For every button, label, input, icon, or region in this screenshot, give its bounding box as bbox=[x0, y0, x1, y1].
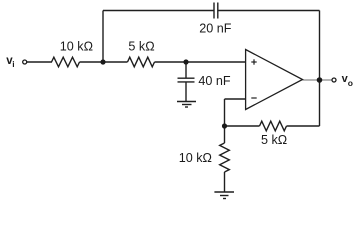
svg-text:vo: vo bbox=[342, 73, 353, 88]
svg-text:5 kΩ: 5 kΩ bbox=[261, 133, 287, 147]
svg-text:40 nF: 40 nF bbox=[198, 74, 231, 88]
svg-text:vi: vi bbox=[6, 55, 14, 69]
svg-text:5 kΩ: 5 kΩ bbox=[128, 40, 154, 54]
svg-text:10 kΩ: 10 kΩ bbox=[60, 40, 93, 54]
svg-text:10 kΩ: 10 kΩ bbox=[179, 151, 212, 165]
svg-text:20 nF: 20 nF bbox=[199, 21, 232, 35]
